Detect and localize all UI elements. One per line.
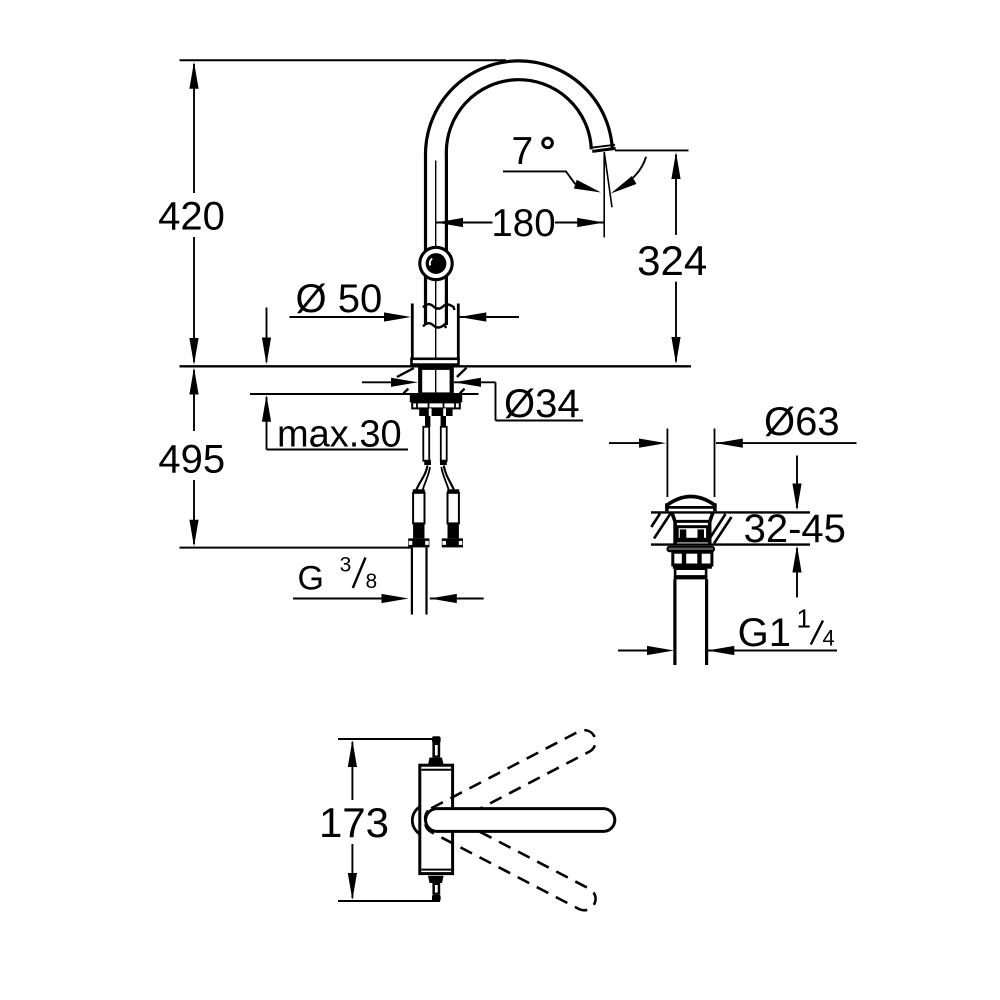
svg-text:G1: G1	[738, 611, 791, 655]
svg-text:max.30: max.30	[277, 414, 402, 456]
svg-text:7: 7	[512, 130, 534, 173]
svg-text:Ø34: Ø34	[504, 382, 580, 426]
svg-text:324: 324	[637, 237, 707, 284]
svg-text:495: 495	[158, 438, 225, 482]
svg-text:32-45: 32-45	[744, 507, 846, 551]
svg-text:173: 173	[319, 799, 389, 846]
svg-text:1: 1	[797, 604, 811, 634]
svg-text:Ø 50: Ø 50	[296, 277, 383, 321]
svg-text:180: 180	[491, 202, 555, 245]
svg-text:4: 4	[823, 626, 835, 651]
svg-text:420: 420	[158, 195, 225, 239]
svg-text:G: G	[298, 560, 324, 598]
svg-text:8: 8	[366, 570, 378, 593]
svg-text:3: 3	[340, 554, 352, 577]
svg-text:Ø63: Ø63	[764, 400, 840, 444]
